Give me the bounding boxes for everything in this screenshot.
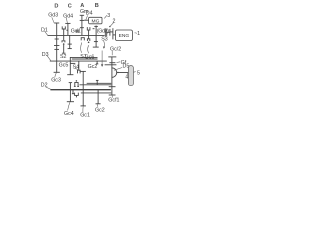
- leader Gc2 bottom: [96, 104, 99, 107]
- svg-text:Gc/2: Gc/2: [110, 46, 121, 52]
- leader 4: [127, 73, 128, 75]
- gear column C10 x=83.2 (Gc1 gear column): [81, 71, 86, 106]
- leader Gc3: [55, 73, 57, 78]
- svg-text:S4: S4: [73, 65, 80, 71]
- svg-text:D5: D5: [123, 64, 130, 70]
- svg-text:D2: D2: [41, 83, 48, 89]
- svg-text:Gc6: Gc6: [85, 54, 95, 60]
- gear column C14 x=98.1 below lower shaft (Gc2): [96, 90, 101, 104]
- svg-text:ENG: ENG: [119, 33, 130, 39]
- svg-text:3: 3: [107, 13, 110, 19]
- svg-text:C: C: [68, 4, 72, 10]
- gear column C1 x=56.7 (Gd3 gear / Gc5 / Gc3): [54, 23, 60, 72]
- leader Gc/2: [111, 51, 113, 55]
- svg-text:Gcf1: Gcf1: [108, 98, 119, 104]
- synchro hub with dot x=88.6 below input shaft: [88, 35, 90, 38]
- sleeve line below lower shaft: [81, 92, 112, 94]
- sleeve above lower shaft: [75, 82, 78, 86]
- leader Gc6: [88, 45, 89, 53]
- synchro dot above lower-shaft sleeve: [76, 80, 78, 82]
- gear column C4 x=69.7 below input shaft: [68, 35, 72, 48]
- shaft below bevel: [111, 77, 113, 87]
- svg-text:5: 5: [137, 70, 140, 76]
- leader Gd3: [52, 17, 54, 23]
- svg-text:S2: S2: [60, 54, 67, 60]
- leader S1: [81, 43, 82, 53]
- hollow sleeve on middle shaft, bottom line: [70, 62, 75, 64]
- hollow sleeve on middle shaft, top line: [70, 57, 97, 61]
- svg-text:B: B: [95, 3, 99, 9]
- synchro sleeve C9 x=78.8 below middle shaft (S4): [78, 61, 81, 73]
- leader D1: [44, 31, 47, 35]
- svg-text:D1: D1: [41, 27, 48, 33]
- gear column C15 x=70.4 crossing lower shaft (Gc4): [67, 83, 74, 102]
- svg-text:(Gd2): (Gd2): [97, 28, 109, 34]
- MG link line: [84, 19, 89, 21]
- leader D4: [86, 15, 88, 19]
- leader Gcf1: [111, 95, 113, 97]
- sleeve line above lower shaft: [80, 84, 112, 86]
- diff output line: [117, 72, 129, 74]
- svg-text:4: 4: [125, 75, 128, 81]
- svg-text:S3: S3: [101, 37, 108, 43]
- MG box: [89, 17, 102, 24]
- synchro column C2 x=63.7 with sleeve S2: [62, 26, 66, 53]
- hollow sleeve second line: [72, 58, 98, 60]
- motor gear column C7 x=81.9 (Gm): [80, 15, 84, 35]
- leader Gd4: [66, 18, 67, 24]
- leader D5: [114, 68, 122, 71]
- leader 5: [134, 71, 136, 74]
- final drive column D5: Gc/2 gear cap: [108, 57, 116, 68]
- shaft D1 (input shaft, top): [48, 34, 105, 36]
- long arrow to middle sleeve: [101, 51, 103, 65]
- svg-text:D3: D3: [42, 52, 49, 58]
- svg-text:D: D: [54, 3, 58, 9]
- synchro sleeve C8 x=88.6 above input shaft: [87, 27, 90, 35]
- clutch plate bars near engine: [104, 29, 106, 37]
- leader Gf: [117, 61, 121, 64]
- leader D3: [47, 56, 51, 61]
- crank links: [107, 31, 110, 33]
- shaft D2 (lower shaft): [50, 89, 111, 91]
- MG shaft gear column C11 x=96.1: [93, 26, 99, 48]
- leader 2: [110, 23, 113, 27]
- short sleeve line above lower shaft right: [87, 82, 112, 84]
- bevel gear half-disc: [112, 68, 117, 78]
- svg-text:Gc5: Gc5: [59, 62, 69, 68]
- synchro sleeve S1 below input shaft: [81, 38, 84, 41]
- svg-text:2: 2: [113, 18, 116, 24]
- gear column C13 x=97.2 above lower sleeve: [96, 80, 99, 85]
- svg-text:Gd4: Gd4: [63, 13, 73, 19]
- svg-text:Gc2: Gc2: [88, 64, 98, 70]
- leader 3: [104, 15, 107, 18]
- svg-text:Gd3: Gd3: [48, 13, 58, 19]
- svg-text:Gc2: Gc2: [95, 107, 105, 113]
- small gear x=73 below lower shaft: [72, 90, 74, 94]
- svg-text:Gc1: Gc1: [80, 113, 90, 119]
- svg-text:Gc4: Gc4: [64, 111, 74, 117]
- leader D2: [46, 87, 51, 89]
- differential pill 5: [128, 66, 133, 86]
- leader S4: [75, 68, 78, 70]
- shaft D3 (middle shaft): [50, 60, 107, 62]
- Gf gear cap: [109, 62, 115, 64]
- leader S3 arrow: [103, 41, 106, 47]
- gear column C3 x=67.9 (Gd4 gear): [65, 23, 70, 35]
- ENG box: [116, 30, 133, 41]
- leader Gc1: [82, 106, 84, 112]
- short line below middle shaft end: [105, 64, 117, 66]
- clutch marks x=76.7,78.2: [77, 30, 79, 33]
- sleeve below lower shaft with stem: [75, 93, 79, 96]
- svg-text:Gc3: Gc3: [51, 78, 61, 84]
- final gear Gcf1: [109, 87, 116, 95]
- leader Gc4: [68, 102, 70, 110]
- svg-text:D4: D4: [86, 11, 93, 17]
- flywheel bar: [112, 28, 114, 39]
- gear column C5 x=70.3 below middle shaft (S4 gear): [67, 61, 73, 75]
- svg-text:Gd1: Gd1: [71, 29, 81, 35]
- svg-text:~1: ~1: [134, 31, 140, 37]
- gear column C12 x=97.1 below middle shaft: [96, 61, 98, 64]
- svg-text:MG: MG: [92, 18, 100, 24]
